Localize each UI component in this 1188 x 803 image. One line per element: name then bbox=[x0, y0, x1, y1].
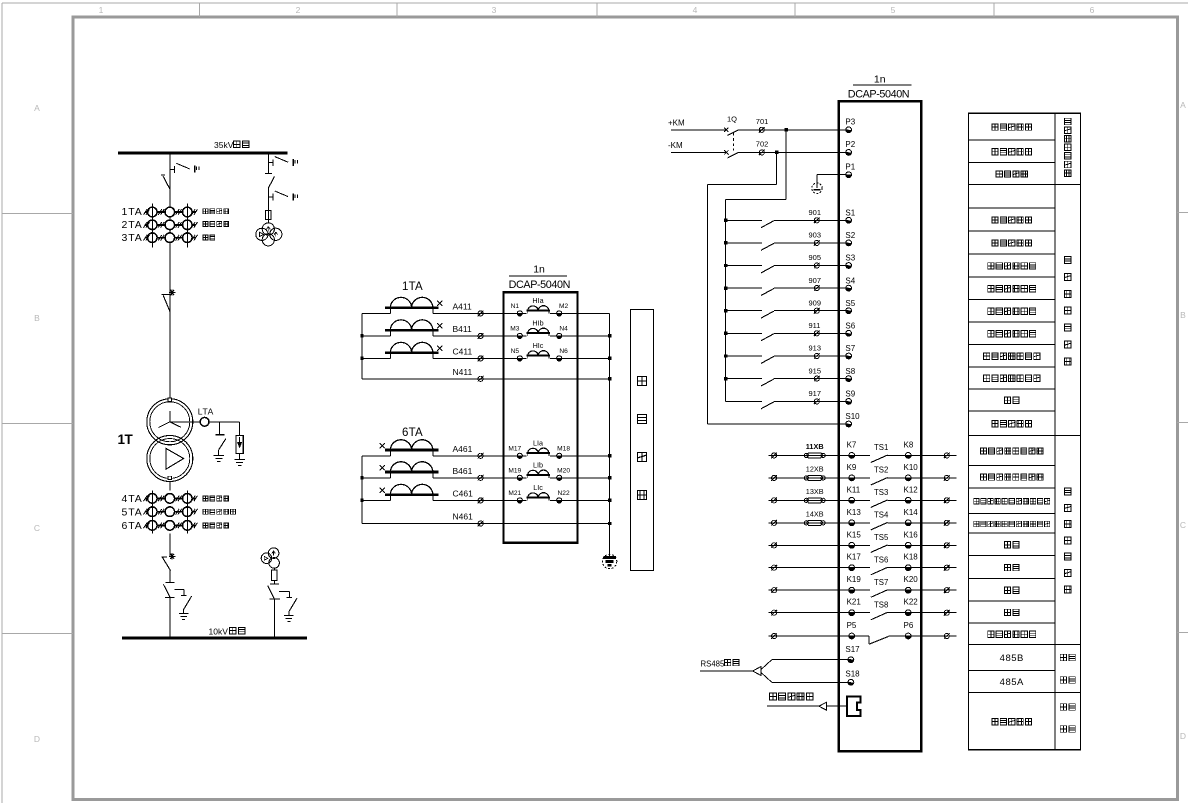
svg-text:S9: S9 bbox=[845, 390, 855, 399]
svg-text:P1: P1 bbox=[845, 162, 855, 171]
junction +KM feed to signal bus bbox=[726, 128, 788, 401]
svg-text:913: 913 bbox=[809, 344, 822, 353]
svg-text:917: 917 bbox=[809, 389, 822, 398]
svg-text:TS5: TS5 bbox=[874, 533, 889, 542]
svg-text:P5: P5 bbox=[847, 621, 857, 630]
voltage transformer 10kV (winding cluster) bbox=[261, 548, 279, 568]
svg-text:LIc: LIc bbox=[533, 483, 543, 492]
terminal S10 signal common bbox=[708, 412, 861, 427]
winding LIc terminals M21 N22 bbox=[504, 483, 578, 503]
svg-text:LIa: LIa bbox=[533, 438, 543, 447]
svg-text:S7: S7 bbox=[845, 344, 855, 353]
output relay contact TS8 terminals K21 K22 bbox=[768, 598, 956, 620]
right collector bus to earth bbox=[608, 313, 611, 554]
earthing switch branch on 10kV PT bbox=[279, 592, 297, 622]
svg-text:M21: M21 bbox=[508, 490, 521, 497]
svg-text:B: B bbox=[1180, 310, 1186, 320]
fuse 35kV PT bbox=[265, 211, 271, 223]
CT group 1TA 2TA 3TA bbox=[144, 203, 198, 247]
signal input contact 907 to S4 bbox=[724, 276, 856, 296]
wire +KM to P3 bbox=[668, 118, 849, 135]
svg-text:+KM: +KM bbox=[668, 118, 685, 127]
svg-text:K10: K10 bbox=[904, 463, 919, 472]
svg-text:485A: 485A bbox=[1000, 677, 1024, 688]
table row: device negative supply bbox=[992, 149, 1032, 155]
wire A411 bbox=[433, 302, 504, 317]
earthing switch lower on PT branch bbox=[268, 191, 297, 201]
svg-text:HIc: HIc bbox=[533, 341, 544, 350]
wire B461 bbox=[433, 466, 504, 481]
table column label: relay signal output (vertical) bbox=[1064, 488, 1071, 593]
svg-text:K9: K9 bbox=[847, 463, 857, 472]
signal input contact 913 to S7 bbox=[724, 344, 856, 364]
svg-text:907: 907 bbox=[809, 276, 822, 285]
svg-text:1TA: 1TA bbox=[402, 281, 423, 293]
table column label: comm port (ethernet) bbox=[1060, 704, 1075, 733]
svg-text:5TA: 5TA bbox=[122, 506, 143, 518]
table row: high oil level alarm bbox=[984, 375, 1040, 381]
svg-text:701: 701 bbox=[756, 117, 769, 126]
label metering (5TA) bbox=[203, 509, 236, 514]
svg-text:1n: 1n bbox=[874, 74, 886, 86]
circuit breaker 10kV side bbox=[163, 583, 174, 638]
fuse 10kV PT bbox=[271, 568, 277, 584]
svg-text:4TA: 4TA bbox=[122, 493, 143, 505]
svg-text:1T: 1T bbox=[118, 432, 134, 447]
svg-text:6TA: 6TA bbox=[402, 427, 423, 439]
svg-text:1: 1 bbox=[99, 5, 104, 15]
wires box to right collector bus bbox=[578, 313, 610, 500]
wire B411 bbox=[433, 324, 504, 339]
svg-text:C: C bbox=[1180, 520, 1186, 530]
svg-text:TS7: TS7 bbox=[874, 578, 888, 587]
svg-text:14XB: 14XB bbox=[806, 510, 824, 519]
svg-text:LIb: LIb bbox=[533, 460, 543, 469]
table row: non-elec protect trip LV breaker bbox=[974, 521, 1050, 526]
svg-text:M18: M18 bbox=[557, 446, 570, 453]
svg-text:DCAP-5040N: DCAP-5040N bbox=[509, 279, 570, 291]
svg-text:S4: S4 bbox=[845, 276, 855, 285]
svg-text:S17: S17 bbox=[845, 645, 860, 654]
winding HIb terminals M3 N4 bbox=[504, 318, 578, 338]
winding LIb terminals M19 M20 bbox=[504, 460, 578, 480]
transformer 1T winding HV circle bbox=[147, 398, 193, 445]
label 3TA bbox=[122, 232, 143, 244]
svg-text:B461: B461 bbox=[453, 466, 473, 476]
table row: diff trip HV breaker bbox=[981, 448, 1043, 454]
svg-text:6TA: 6TA bbox=[122, 520, 143, 532]
signal input contact 909 to S5 bbox=[724, 298, 856, 318]
svg-text:K7: K7 bbox=[847, 440, 857, 449]
svg-text:TS6: TS6 bbox=[874, 555, 888, 564]
svg-text:3: 3 bbox=[492, 5, 497, 15]
signal input contact 911 to S6 bbox=[724, 321, 856, 341]
output relay contact TS1 terminals K7 K8 bbox=[768, 440, 956, 462]
winding HIa terminals N1 M2 bbox=[504, 296, 578, 316]
label 5TA bbox=[122, 506, 143, 518]
output relay contact TS7 terminals K19 K20 bbox=[768, 575, 956, 597]
svg-text:HIa: HIa bbox=[532, 296, 543, 305]
svg-text:12XB: 12XB bbox=[806, 465, 824, 474]
table row: non-elec protect trip HV breaker bbox=[974, 499, 1050, 504]
wire N411 bbox=[362, 367, 610, 382]
table row: light gas bbox=[992, 240, 1032, 246]
junction -KM feed to signal common bbox=[708, 151, 779, 424]
Ethernet communication port bbox=[767, 693, 861, 716]
label 6TA (CT secondary group) bbox=[402, 427, 423, 439]
table row: 485B bbox=[1000, 653, 1024, 664]
table row: device positive supply bbox=[992, 124, 1032, 130]
svg-text:1Q: 1Q bbox=[727, 115, 737, 124]
neutral surge arrester bbox=[234, 422, 245, 466]
svg-text:LTA: LTA bbox=[198, 407, 214, 417]
RS485 communication port S17 S18 bbox=[700, 645, 860, 685]
label 6TA bbox=[122, 520, 143, 532]
svg-text:S18: S18 bbox=[845, 670, 860, 679]
neutral lead with LTA zero-seq CT bbox=[170, 417, 240, 426]
svg-text:S6: S6 bbox=[845, 322, 855, 331]
table row: device power-loss signal bbox=[988, 631, 1036, 637]
label 1TA (CT secondary group) bbox=[402, 281, 423, 293]
motorized disconnector lower (with star) bbox=[162, 553, 176, 582]
svg-text:35kV: 35kV bbox=[214, 140, 234, 150]
label differential protection (1TA) bbox=[203, 209, 229, 214]
table row: signal common bbox=[992, 420, 1032, 426]
table row: diff trip LV breaker bbox=[981, 474, 1043, 480]
table row: spare bbox=[1004, 542, 1019, 548]
signal description table grid bbox=[969, 113, 1081, 750]
label LTA bbox=[198, 407, 214, 417]
earthing switch upper on PT branch bbox=[268, 157, 297, 167]
svg-text:TS4: TS4 bbox=[874, 510, 889, 519]
svg-text:3TA: 3TA bbox=[122, 232, 143, 244]
svg-text:10kV: 10kV bbox=[209, 626, 229, 636]
svg-text:D: D bbox=[1180, 731, 1186, 741]
svg-text:2TA: 2TA bbox=[122, 219, 143, 231]
svg-text:K17: K17 bbox=[847, 553, 862, 562]
earth terminal of CT circuits bbox=[602, 554, 616, 568]
wire main feeder upper bbox=[169, 153, 171, 295]
svg-text:K12: K12 bbox=[904, 485, 919, 494]
table row: temp rise bbox=[988, 263, 1036, 269]
relay unit 1n DCAP-5040N (I/O box) bbox=[839, 74, 922, 752]
label 1TA bbox=[122, 206, 143, 218]
table row: spare bbox=[1004, 564, 1019, 570]
35kV bus bbox=[118, 152, 288, 155]
terminal P1 with shield earth bbox=[812, 162, 856, 193]
svg-text:A: A bbox=[1180, 100, 1186, 110]
svg-text:M3: M3 bbox=[510, 326, 519, 333]
svg-text:S2: S2 bbox=[845, 231, 855, 240]
output relay contact TS5 terminals K15 K16 bbox=[768, 530, 956, 552]
svg-text:K19: K19 bbox=[847, 575, 862, 584]
svg-text:TS8: TS8 bbox=[874, 600, 888, 609]
svg-text:A411: A411 bbox=[453, 302, 472, 312]
relay unit 1n DCAP-5040N (analog input box) bbox=[504, 263, 578, 543]
CT secondary 6TA phase B bbox=[380, 308, 439, 478]
svg-text:S10: S10 bbox=[845, 412, 860, 421]
CT secondary 1TA phase B bbox=[385, 308, 442, 336]
svg-text:901: 901 bbox=[809, 208, 822, 217]
wire C411 bbox=[433, 347, 504, 362]
svg-text:K21: K21 bbox=[847, 598, 862, 607]
svg-text:D: D bbox=[34, 734, 40, 744]
svg-text:A461: A461 bbox=[453, 444, 473, 454]
output relay contact TS6 terminals K17 K18 bbox=[768, 553, 956, 575]
label 4TA bbox=[122, 493, 143, 505]
breaker linkage dashed bbox=[733, 133, 735, 151]
terminal P3 bbox=[845, 118, 855, 133]
wire 35kV PT branch bbox=[267, 153, 269, 174]
terminal P2 bbox=[845, 140, 855, 155]
label 701 bbox=[756, 117, 769, 126]
transformer 1T winding LV circle bbox=[147, 436, 193, 482]
CT secondary 6TA phase C bbox=[380, 308, 439, 501]
10kV bus bbox=[122, 637, 307, 640]
disconnector on feeder below 35kV bus bbox=[161, 175, 170, 189]
svg-text:11XB: 11XB bbox=[806, 442, 824, 451]
svg-text:M19: M19 bbox=[508, 468, 521, 475]
neutral bus left of 1TA bbox=[360, 313, 390, 378]
svg-text:TS3: TS3 bbox=[874, 488, 888, 497]
svg-text:S1: S1 bbox=[845, 209, 855, 218]
neutral bus left of 6TA bbox=[360, 456, 390, 524]
svg-text:N22: N22 bbox=[558, 490, 570, 497]
svg-text:K18: K18 bbox=[904, 553, 919, 562]
svg-text:B411: B411 bbox=[453, 324, 472, 334]
table row: pressure abnormal trip bbox=[988, 331, 1036, 337]
svg-text:N4: N4 bbox=[559, 326, 568, 333]
svg-text:5: 5 bbox=[891, 5, 896, 15]
label metering (3TA) bbox=[203, 235, 215, 240]
table row: pressure abnormal alarm bbox=[988, 308, 1036, 314]
svg-text:P6: P6 bbox=[904, 621, 914, 630]
svg-text:K13: K13 bbox=[847, 508, 862, 517]
earthing switch on incoming feeder bbox=[170, 163, 199, 173]
disconnector on 10kV PT branch bbox=[268, 584, 280, 638]
differential protection label box bbox=[631, 310, 654, 571]
svg-text:P2: P2 bbox=[845, 140, 855, 149]
disconnector on 35kV PT branch bbox=[265, 174, 275, 211]
CT group 4TA 5TA 6TA bbox=[144, 491, 198, 534]
svg-text:K14: K14 bbox=[904, 508, 919, 517]
svg-text:K20: K20 bbox=[904, 575, 919, 584]
svg-text:P3: P3 bbox=[845, 118, 855, 127]
svg-text:K8: K8 bbox=[904, 440, 914, 449]
svg-text:S8: S8 bbox=[845, 367, 855, 376]
svg-text:RS485: RS485 bbox=[701, 659, 726, 668]
earthing switch branch at breaker bbox=[174, 589, 191, 619]
table row: hv transformer heavy gas bbox=[992, 217, 1032, 223]
svg-text:M2: M2 bbox=[559, 303, 568, 310]
svg-text:B: B bbox=[34, 313, 40, 323]
wire A461 bbox=[433, 444, 504, 459]
svg-text:909: 909 bbox=[809, 298, 822, 307]
signal input contact 903 to S2 bbox=[724, 231, 856, 251]
label 10kV busbar bbox=[209, 626, 245, 636]
table column label: comm port (485) bbox=[1060, 654, 1075, 683]
CT secondary 1TA phase C bbox=[385, 308, 442, 359]
svg-text:485B: 485B bbox=[1000, 653, 1024, 664]
winding HIc terminals N5 N6 bbox=[504, 341, 578, 361]
table column label: device/signal power (vertical) bbox=[1065, 118, 1071, 176]
svg-text:1TA: 1TA bbox=[122, 206, 143, 218]
svg-text:6: 6 bbox=[1090, 5, 1095, 15]
svg-text:N411: N411 bbox=[453, 367, 473, 377]
wire feeder between CTs and transformer bbox=[169, 248, 171, 399]
svg-text:13XB: 13XB bbox=[806, 487, 824, 496]
svg-text:A: A bbox=[34, 103, 40, 113]
svg-text:702: 702 bbox=[756, 139, 769, 148]
svg-text:2: 2 bbox=[296, 5, 301, 15]
wire -KM to P2 bbox=[668, 141, 849, 158]
signal input contact 915 to S8 bbox=[724, 366, 856, 386]
table row: low oil level alarm bbox=[984, 353, 1040, 359]
svg-text:1n: 1n bbox=[533, 263, 545, 275]
svg-text:S3: S3 bbox=[845, 254, 855, 263]
svg-text:C: C bbox=[34, 523, 40, 533]
signal input contact 901 to S1 bbox=[724, 208, 856, 228]
table column label: switching signal input (vertical) bbox=[1064, 256, 1071, 364]
svg-text:905: 905 bbox=[809, 253, 822, 262]
table row: temp too high bbox=[988, 285, 1036, 291]
label 1Q breaker aux bbox=[727, 115, 737, 124]
svg-text:N461: N461 bbox=[453, 512, 474, 522]
svg-text:HIb: HIb bbox=[532, 318, 543, 327]
svg-text:DCAP-5040N: DCAP-5040N bbox=[848, 88, 909, 100]
svg-text:C461: C461 bbox=[453, 489, 474, 499]
wire feeder transformer to LV switch bbox=[169, 482, 171, 558]
svg-text:M17: M17 bbox=[508, 446, 521, 453]
svg-text:903: 903 bbox=[809, 231, 822, 240]
svg-text:4: 4 bbox=[693, 5, 698, 15]
svg-text:M20: M20 bbox=[557, 468, 570, 475]
table row: power shield bbox=[996, 171, 1027, 177]
svg-text:915: 915 bbox=[809, 366, 822, 375]
label backup protection (4TA) bbox=[203, 496, 229, 501]
svg-text:K11: K11 bbox=[847, 485, 861, 494]
label 1T bbox=[118, 432, 134, 447]
motorized disconnector upper (with star) bbox=[162, 290, 176, 312]
CT secondary 6TA phase A bbox=[380, 308, 439, 456]
voltage transformer 35kV (winding cluster) bbox=[256, 223, 282, 246]
label 702 bbox=[756, 139, 769, 148]
neutral earthing switch bbox=[214, 422, 226, 462]
svg-text:TS1: TS1 bbox=[874, 443, 888, 452]
power-loss signal contact terminals P5 P6 bbox=[768, 621, 956, 644]
svg-text:S5: S5 bbox=[845, 299, 855, 308]
svg-text:N1: N1 bbox=[511, 303, 520, 310]
table row: spare bbox=[1004, 609, 1019, 615]
output relay contact TS3 terminals K11 K12 bbox=[768, 485, 956, 507]
output relay contact TS2 terminals K9 K10 bbox=[768, 463, 956, 485]
svg-text:K16: K16 bbox=[904, 530, 919, 539]
table row: spare bbox=[1004, 587, 1019, 593]
signal input contact 905 to S3 bbox=[724, 253, 856, 273]
signal input contact 917 to S9 bbox=[726, 389, 856, 409]
wire C461 bbox=[433, 489, 504, 504]
svg-text:TS2: TS2 bbox=[874, 466, 888, 475]
wire N461 bbox=[362, 512, 610, 527]
svg-text:C411: C411 bbox=[453, 347, 473, 357]
winding LIa terminals M17 M18 bbox=[504, 438, 578, 458]
svg-text:N6: N6 bbox=[559, 348, 568, 355]
svg-text:-KM: -KM bbox=[668, 141, 683, 150]
label 2TA bbox=[122, 219, 143, 231]
table row: 485A bbox=[1000, 677, 1024, 688]
label differential protection (6TA) bbox=[203, 523, 229, 528]
table row: ethernet port bbox=[992, 718, 1032, 724]
table row: spare bbox=[1004, 397, 1019, 403]
label 35kV busbar bbox=[214, 140, 249, 150]
svg-text:N5: N5 bbox=[511, 348, 520, 355]
label backup protection (2TA) bbox=[203, 221, 229, 226]
output relay contact TS4 terminals K13 K14 bbox=[768, 508, 956, 530]
svg-text:K22: K22 bbox=[904, 598, 919, 607]
svg-text:911: 911 bbox=[809, 321, 821, 330]
svg-text:K15: K15 bbox=[847, 530, 862, 539]
CT secondary 1TA phase A bbox=[385, 297, 442, 313]
